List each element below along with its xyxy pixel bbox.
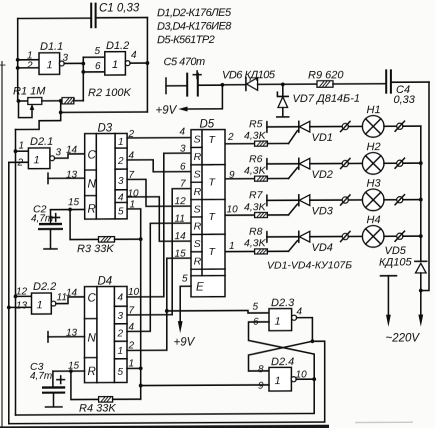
- wire: [348, 162, 362, 164]
- node: [395, 195, 404, 205]
- wire: [297, 318, 313, 342]
- svg-text:4,3K: 4,3K: [244, 130, 267, 142]
- wire: [225, 178, 255, 180]
- node: [419, 289, 423, 293]
- node: [266, 232, 268, 242]
- svg-text:C5 470m: C5 470m: [164, 56, 205, 68]
- svg-text:1: 1: [47, 59, 53, 71]
- svg-text:R7: R7: [249, 189, 264, 201]
- wire: [82, 57, 84, 100]
- svg-text:3: 3: [118, 176, 124, 187]
- transistor VD1: [299, 121, 310, 132]
- svg-text:R: R: [88, 366, 96, 378]
- node: [165, 309, 169, 313]
- node: [59, 110, 63, 114]
- svg-text:D5: D5: [200, 118, 215, 130]
- op-amp D2.4: [269, 367, 296, 391]
- node: [419, 234, 423, 238]
- wire: [127, 209, 141, 399]
- svg-text:11: 11: [175, 214, 185, 225]
- svg-text:N: N: [88, 333, 97, 345]
- wire: [403, 162, 421, 164]
- wire: [178, 85, 222, 112]
- wire: [127, 179, 191, 206]
- wire: [64, 62, 83, 64]
- wire: [310, 126, 342, 128]
- wire: [127, 189, 191, 315]
- wire: [421, 82, 429, 290]
- svg-text:4: 4: [297, 307, 303, 318]
- wire: [9, 306, 32, 308]
- wire: [289, 204, 298, 215]
- wire: [289, 168, 298, 179]
- node: [81, 62, 85, 66]
- svg-text:КД105: КД105: [379, 256, 412, 268]
- svg-text:VD1-VD4-КУ107Б: VD1-VD4-КУ107Б: [267, 259, 352, 271]
- svg-text:S: S: [194, 134, 201, 146]
- diode VD6: [222, 77, 317, 90]
- label IC types: [157, 7, 232, 46]
- wire: [289, 131, 298, 144]
- svg-text:D2.1: D2.1: [30, 136, 53, 148]
- svg-text:13: 13: [16, 300, 28, 311]
- wire: [127, 137, 191, 139]
- svg-text:1: 1: [229, 241, 235, 252]
- svg-text:VD2: VD2: [312, 169, 333, 181]
- resistor R9: [317, 80, 385, 87]
- svg-text:2: 2: [26, 60, 33, 71]
- wire: [146, 18, 148, 112]
- node: [14, 149, 18, 153]
- counter D4: [85, 286, 128, 382]
- wire: [403, 199, 421, 201]
- svg-text:4: 4: [118, 292, 124, 303]
- diode VD5: [415, 261, 427, 290]
- svg-text:2: 2: [117, 156, 124, 167]
- lamp H1: [362, 116, 384, 138]
- svg-text:S: S: [194, 203, 201, 215]
- wire: [249, 322, 315, 380]
- wire: [267, 199, 298, 201]
- wire: [249, 341, 313, 371]
- svg-text:5: 5: [118, 206, 124, 217]
- svg-text:S: S: [194, 169, 201, 181]
- svg-text:1: 1: [275, 375, 281, 387]
- svg-text:15: 15: [175, 249, 187, 260]
- node: [14, 295, 18, 299]
- svg-text:1: 1: [37, 299, 43, 311]
- resistor R8: [255, 249, 289, 254]
- resistor R4: [71, 371, 141, 402]
- svg-text:D1.1: D1.1: [40, 41, 63, 53]
- wire: [225, 143, 255, 145]
- wire: [420, 126, 422, 261]
- wire: [127, 153, 191, 297]
- svg-text:0,33: 0,33: [394, 94, 416, 106]
- op-amp D2.3: [269, 309, 297, 331]
- svg-text:D4: D4: [98, 276, 113, 288]
- wire: [310, 199, 342, 201]
- wire: [225, 250, 255, 252]
- wire: [127, 197, 191, 242]
- svg-text:1: 1: [275, 316, 281, 328]
- svg-text:9: 9: [229, 170, 235, 181]
- wire: [127, 223, 191, 331]
- svg-text:1: 1: [118, 346, 124, 357]
- svg-text:3: 3: [118, 311, 124, 322]
- wire: [15, 130, 17, 416]
- wire: [48, 173, 85, 184]
- resistor R3: [70, 209, 141, 242]
- wire: [18, 17, 91, 19]
- svg-text:4: 4: [131, 50, 137, 61]
- svg-text:2: 2: [17, 157, 24, 168]
- wire: [310, 163, 342, 165]
- svg-text:3: 3: [63, 53, 69, 64]
- svg-text:R1 1M: R1 1M: [13, 85, 46, 97]
- svg-text:C: C: [88, 293, 97, 305]
- svg-text:+9V: +9V: [156, 105, 178, 117]
- svg-text:4,3K: 4,3K: [244, 165, 267, 177]
- svg-text:D2.2: D2.2: [33, 281, 56, 293]
- svg-text:2: 2: [117, 328, 124, 339]
- wire: [18, 59, 39, 61]
- lamp H3: [362, 189, 384, 211]
- wire: [127, 367, 141, 369]
- svg-text:R: R: [194, 186, 202, 198]
- node: [419, 161, 423, 165]
- wire: [83, 71, 105, 73]
- svg-text:1: 1: [19, 140, 25, 151]
- svg-text:5: 5: [253, 302, 259, 313]
- svg-text:R: R: [194, 221, 202, 233]
- node: [68, 208, 72, 212]
- resistor R7: [255, 212, 289, 217]
- svg-text:4: 4: [180, 127, 186, 138]
- svg-text:14: 14: [175, 231, 187, 242]
- svg-text:R: R: [194, 256, 202, 268]
- node: [395, 158, 404, 168]
- svg-text:R3 33K: R3 33K: [77, 243, 114, 255]
- wire: [56, 297, 85, 304]
- node: [59, 99, 63, 103]
- capacitor C3: [42, 371, 65, 407]
- wire: [48, 331, 85, 342]
- svg-text:9: 9: [258, 381, 264, 392]
- node: [281, 83, 285, 87]
- svg-text:R5: R5: [249, 118, 263, 130]
- wire: [51, 208, 85, 210]
- wire: [384, 162, 397, 164]
- wire: [381, 276, 397, 327]
- svg-text:2: 2: [227, 132, 234, 143]
- svg-text:3: 3: [180, 144, 186, 155]
- resistor R1: [18, 97, 62, 104]
- wire: [17, 99, 35, 118]
- svg-text:D2.4: D2.4: [271, 356, 294, 368]
- svg-text:D3,D4-К176ИЕ8: D3,D4-К176ИЕ8: [157, 20, 232, 32]
- svg-text:S: S: [194, 238, 201, 250]
- node: [266, 159, 268, 169]
- wire: [83, 56, 105, 58]
- op-amp D1.2: [105, 52, 130, 75]
- svg-text:14: 14: [66, 288, 78, 299]
- lamp H2: [362, 153, 384, 175]
- resistor R5: [255, 141, 289, 146]
- svg-text:D3: D3: [98, 123, 113, 135]
- svg-text:R2 100K: R2 100K: [88, 87, 131, 99]
- svg-text:D1.2: D1.2: [106, 40, 129, 52]
- wire: [310, 236, 342, 238]
- svg-text:4,3K: 4,3K: [244, 237, 267, 249]
- wire: [97, 17, 148, 19]
- wire: [16, 295, 32, 297]
- wire: [384, 199, 397, 201]
- node: [7, 306, 11, 310]
- wire: [55, 154, 85, 158]
- resistor R6: [255, 176, 289, 181]
- wire: [16, 150, 29, 152]
- capacitor C4: [385, 69, 429, 94]
- resistor R2: [62, 98, 83, 104]
- wire: [16, 101, 61, 130]
- wire: [141, 384, 269, 387]
- node: [139, 237, 143, 241]
- label R7 4,3K: [244, 189, 267, 213]
- svg-text:VD7 Д814Б-1: VD7 Д814Б-1: [293, 93, 360, 105]
- svg-text:1: 1: [112, 59, 118, 71]
- svg-text:4: 4: [118, 192, 124, 203]
- svg-text:E: E: [196, 282, 204, 294]
- wire: [348, 125, 362, 127]
- svg-text:5: 5: [118, 367, 124, 378]
- wire: [225, 214, 255, 216]
- svg-text:3: 3: [56, 147, 62, 158]
- svg-text:VD4: VD4: [312, 242, 333, 254]
- node: [341, 195, 350, 205]
- node: [311, 339, 315, 343]
- node: [395, 121, 404, 131]
- svg-text:VD1: VD1: [312, 132, 333, 144]
- svg-text:5: 5: [182, 274, 188, 285]
- svg-text:4,7m: 4,7m: [31, 213, 53, 224]
- node: [16, 58, 20, 62]
- svg-text:12: 12: [16, 286, 28, 297]
- node: [395, 231, 404, 241]
- svg-text:13: 13: [66, 170, 78, 181]
- wire: [384, 125, 397, 127]
- flip-flop D5: [191, 130, 225, 297]
- transistor VD4: [299, 231, 310, 242]
- svg-text:C1 0,33: C1 0,33: [99, 2, 140, 14]
- wire: [267, 236, 298, 238]
- capacitor C1: [90, 3, 96, 29]
- node: [341, 231, 350, 241]
- svg-text:R4 33K: R4 33K: [79, 402, 116, 414]
- node: [146, 61, 150, 65]
- svg-text:6: 6: [95, 61, 101, 72]
- lamp H4: [362, 226, 384, 248]
- node: [312, 377, 316, 381]
- svg-text:R: R: [88, 204, 96, 216]
- svg-text:H1: H1: [367, 104, 381, 116]
- op-amp D2.2: [32, 293, 56, 314]
- svg-text:R8: R8: [249, 226, 263, 238]
- wire: [348, 235, 362, 237]
- node: [419, 198, 423, 202]
- label R6 4,3K: [244, 153, 267, 177]
- wire: [16, 379, 315, 415]
- counter D3: [85, 133, 127, 219]
- svg-text:10: 10: [227, 204, 239, 215]
- label R8 4,3K: [244, 226, 267, 250]
- wire: [289, 241, 298, 252]
- node: [341, 121, 350, 131]
- wire: [178, 286, 191, 333]
- wire: [9, 161, 29, 163]
- wire: [130, 62, 147, 64]
- node: [139, 366, 143, 370]
- svg-text:1: 1: [118, 137, 124, 148]
- wire: [267, 163, 298, 165]
- wire: [348, 199, 362, 201]
- svg-text:VD3: VD3: [312, 206, 334, 218]
- node: [341, 158, 350, 168]
- op-amp D1.1: [39, 53, 64, 75]
- wire: [53, 370, 85, 372]
- svg-text:D2.3: D2.3: [271, 297, 295, 309]
- wire: [127, 160, 191, 172]
- svg-text:12: 12: [175, 196, 187, 207]
- wire: [403, 235, 421, 237]
- svg-text:4,3K: 4,3K: [244, 201, 267, 213]
- capacitor C2: [38, 210, 63, 249]
- svg-text:5: 5: [95, 46, 101, 57]
- wire: [8, 162, 10, 423]
- node: [266, 195, 268, 205]
- svg-text:R9 620: R9 620: [308, 69, 344, 81]
- svg-text:~220V: ~220V: [386, 332, 421, 344]
- wire: [18, 67, 39, 69]
- wire: [418, 290, 423, 326]
- transistor VD2: [299, 158, 310, 169]
- node: [81, 70, 85, 74]
- border frame: [1, 61, 3, 428]
- svg-text:1: 1: [34, 154, 40, 166]
- label R5 4,3K: [244, 118, 267, 142]
- svg-text:6: 6: [180, 162, 186, 173]
- svg-text:4,7m: 4,7m: [30, 371, 52, 382]
- svg-text:R6: R6: [249, 153, 263, 165]
- wire: [384, 235, 397, 237]
- svg-text:8: 8: [258, 364, 264, 375]
- wire: [403, 125, 421, 127]
- zener diode VD7: [277, 84, 289, 117]
- wire: [127, 258, 191, 350]
- svg-text:N: N: [88, 179, 97, 191]
- node: [266, 122, 268, 132]
- svg-text:15: 15: [68, 197, 80, 208]
- svg-text:7: 7: [180, 179, 186, 190]
- svg-text:D1,D2-К176ЛЕ5: D1,D2-К176ЛЕ5: [157, 7, 232, 19]
- wire: [9, 341, 325, 423]
- svg-text:+9V: +9V: [174, 337, 196, 349]
- wire: [167, 310, 269, 313]
- svg-text:14: 14: [66, 145, 78, 156]
- svg-text:H2: H2: [367, 141, 381, 153]
- wire: [296, 378, 314, 380]
- wire: [267, 126, 298, 128]
- svg-text:VD5: VD5: [385, 245, 407, 257]
- svg-text:H3: H3: [367, 178, 382, 190]
- node: [16, 66, 20, 70]
- svg-text:C: C: [88, 150, 97, 162]
- svg-text:VD6 КД105: VD6 КД105: [222, 69, 276, 81]
- transistor VD3: [299, 195, 310, 206]
- node: [69, 369, 73, 373]
- op-amp D2.1: [28, 148, 54, 169]
- wire: [17, 19, 19, 102]
- capacitor C5: [166, 71, 222, 97]
- svg-text:H4: H4: [367, 214, 381, 226]
- wire: [61, 111, 148, 113]
- svg-text:10: 10: [128, 188, 140, 199]
- node: [221, 83, 225, 87]
- svg-text:R: R: [194, 151, 202, 163]
- node: [139, 384, 143, 388]
- svg-text:D5-К561ТР2: D5-К561ТР2: [157, 34, 215, 46]
